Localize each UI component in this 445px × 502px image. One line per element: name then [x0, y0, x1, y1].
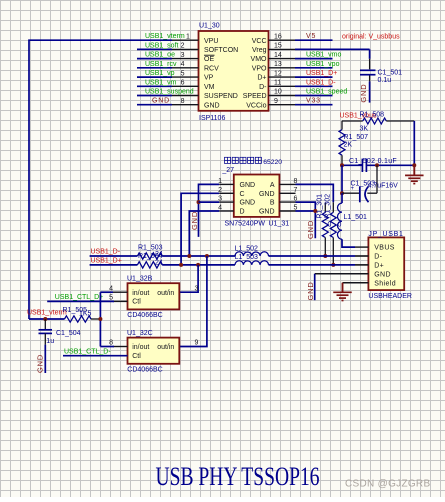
svg-text:L1_503: L1_503 [235, 254, 258, 261]
U1_30 pin 1 stub [172, 39, 199, 41]
U1_30 pin 4 stub [172, 67, 199, 69]
svg-text:GND: GND [240, 200, 256, 207]
svg-text:RCV: RCV [204, 65, 219, 72]
U1_30 pin 6 stub [172, 85, 199, 87]
junction D- to U1_32C pin9 [205, 254, 209, 258]
svg-text:U1_31: U1_31 [269, 221, 290, 228]
svg-text:U1_30: U1_30 [199, 23, 220, 30]
svg-text:R1_508: R1_508 [360, 112, 385, 119]
wire from U1_30 pin15 to C1_501 [369, 49, 371, 58]
wire vterm node [29, 318, 65, 320]
wire USB1_D+ line mid [162, 264, 235, 266]
U1_31 pin 7 stub [279, 192, 295, 194]
U1_30 pin 8 stub [172, 104, 199, 106]
wire C1_502 left lead [342, 164, 362, 166]
svg-text:USB1_D+: USB1_D+ [306, 70, 337, 77]
svg-text:D-: D- [374, 254, 382, 261]
vertical wire pin4-R1_505-pin8 [99, 292, 101, 346]
svg-text:GND: GND [259, 191, 275, 198]
svg-text:3: 3 [195, 285, 199, 292]
svg-text:USB1_vterm: USB1_vterm [145, 33, 185, 40]
wire JP_USB1 Shield to ground [343, 282, 369, 284]
wire U1_31 pin6 (B) to GND [296, 202, 316, 238]
svg-text:USB1_vpo: USB1_vpo [306, 61, 340, 68]
analog switch U1_32B body [128, 283, 180, 309]
svg-text:0.1u: 0.1u [378, 77, 392, 84]
svg-text:GND: GND [240, 182, 256, 189]
svg-text:GND: GND [374, 271, 391, 278]
svg-text:V33: V33 [306, 98, 321, 105]
svg-text:8: 8 [181, 98, 185, 105]
svg-text:C1_504: C1_504 [56, 330, 81, 337]
wire at U1_30 pin 15 [295, 48, 370, 50]
svg-text:10: 10 [274, 89, 282, 96]
wire L1_501 to JP_USB1 VBUS [342, 239, 355, 247]
wire C1_502 right lead [366, 164, 414, 166]
resistor R1_302 [330, 212, 336, 237]
svg-text:CSDN @GJZGRB: CSDN @GJZGRB [345, 479, 430, 490]
U1_30 pin 5 stub [172, 76, 199, 78]
JP_USB1 pin 3 stub [355, 264, 368, 266]
wire vbus rail down [341, 165, 343, 193]
wire at U1_30 pin 14 [295, 58, 333, 60]
svg-text:R1_507: R1_507 [344, 134, 369, 141]
svg-text:D-: D- [259, 84, 267, 91]
svg-text:11: 11 [274, 80, 281, 87]
svg-text:GND: GND [306, 281, 315, 300]
wire USB1_vbus node [342, 120, 363, 122]
svg-text:L1_502: L1_502 [235, 245, 258, 252]
JP_USB1 pin 1 stub [355, 246, 368, 248]
junction U1_31 pin3 GND [197, 200, 201, 204]
svg-text:GND: GND [359, 84, 368, 103]
wire net USB1_vterm from U1_30 pin1 down to R1_505 [29, 40, 172, 319]
capacitor C1_503 (polarized) [342, 192, 360, 194]
junction vterm/C1_504 [43, 317, 47, 321]
U1_31 pin 3 stub [219, 201, 234, 203]
wire to U1_30 pin 8 [137, 104, 172, 106]
svg-text:GND: GND [204, 102, 220, 109]
svg-text:1u: 1u [46, 338, 54, 345]
junction pin5/pin6 GND wire [313, 209, 317, 213]
U1_32B pin 4 stub [113, 291, 128, 293]
wire U1_31 pin2 (C) to D+ line [181, 193, 219, 265]
U1_30 pin 10 stub [269, 95, 296, 97]
U1_31 pin 1 stub [219, 183, 234, 185]
capacitor C1_501 [360, 69, 376, 71]
svg-text:USBHEADER: USBHEADER [368, 293, 412, 300]
svg-text:R1_302: R1_302 [324, 194, 331, 219]
resistor R1_507 [341, 121, 343, 130]
IC U1_30 ISP1106 body [199, 31, 269, 111]
U1_32C pin 8 stub [113, 346, 128, 348]
wire at U1_30 pin 12 [295, 76, 333, 78]
svg-text:24: 24 [155, 260, 163, 267]
U1_30 pin 3 stub [172, 58, 199, 60]
resistor R1_505 [65, 316, 92, 322]
wire U1_32B pin4 to vertical [100, 291, 113, 293]
svg-text:JP_USB1: JP_USB1 [368, 231, 403, 238]
junction R1_301 to D- line [323, 254, 327, 258]
U1_31 pin 6 stub [279, 201, 295, 203]
svg-text:OE: OE [204, 56, 214, 63]
svg-text:0: 0 [328, 222, 332, 229]
connector JP_USB1 body [368, 237, 404, 290]
svg-text:VPO: VPO [252, 65, 267, 72]
resistor R1_301 [324, 203, 326, 213]
wire USB1_D+ line right [269, 264, 356, 266]
U1_31 pin 4 stub [219, 210, 234, 212]
junction at C1_502 right [375, 163, 379, 167]
junction vbus rail / C1_503 / U1_31 pin7 [340, 191, 344, 195]
svg-text:Ctl: Ctl [132, 298, 141, 305]
svg-text:VM: VM [204, 84, 215, 91]
svg-text:USB PHY TSSOP16: USB PHY TSSOP16 [156, 461, 320, 491]
svg-text:L1_501: L1_501 [344, 214, 367, 221]
U1_30 pin 11 stub [269, 85, 296, 87]
svg-text:out/in: out/in [157, 290, 174, 297]
svg-text:VP: VP [204, 75, 214, 82]
U1_30 pin 14 stub [269, 58, 296, 60]
svg-text:original: V_usbbus: original: V_usbbus [342, 34, 400, 41]
wire USB1_D- line right [269, 255, 356, 257]
wire U1_32C pin8 [100, 346, 114, 348]
svg-text:VCC: VCC [252, 38, 267, 45]
wire at U1_30 pin 13 [295, 67, 333, 69]
svg-text:SOFTCON: SOFTCON [204, 47, 238, 54]
svg-text:D+: D+ [257, 75, 266, 82]
svg-text:C1_502 0.1uF: C1_502 0.1uF [349, 158, 397, 165]
svg-text:USB1_rcv: USB1_rcv [145, 61, 177, 68]
svg-text:A: A [270, 182, 275, 189]
svg-text:VCCio: VCCio [246, 102, 266, 109]
wire vbus rail to L1_501 [341, 193, 343, 203]
svg-text:C: C [240, 191, 245, 198]
U1_30 pin 7 stub [172, 95, 199, 97]
wire at U1_30 pin 16 [295, 39, 333, 41]
wire U1_32C pin9 to D- line [179, 256, 207, 347]
svg-text:USB1_vp: USB1_vp [145, 70, 175, 77]
wire R1_508 to ground rail [386, 120, 414, 122]
wire U1_31 pin5 [296, 210, 316, 212]
U1_31 pin 5 stub [279, 210, 295, 212]
wire to U1_30 pin 6 [137, 85, 172, 87]
wire USB1_D- line mid [162, 255, 235, 257]
svg-text:USB1_CTL_D+: USB1_CTL_D+ [55, 294, 103, 301]
U1_31 pin 8 stub [279, 183, 295, 185]
wire to U1_30 pin 5 [137, 76, 172, 78]
svg-text:USB1_soft: USB1_soft [145, 42, 179, 49]
junction D+ to U1_31 pin2 [179, 263, 183, 267]
svg-text:B: B [270, 200, 275, 207]
wire to U1_30 pin 4 [137, 67, 172, 69]
svg-text:Vreg: Vreg [252, 47, 267, 54]
svg-text:4: 4 [181, 61, 185, 68]
svg-text:USB1_D-: USB1_D- [306, 79, 336, 86]
svg-text:13: 13 [274, 61, 282, 68]
svg-text:GND: GND [259, 209, 275, 216]
svg-text:U1_32B: U1_32B [127, 275, 153, 282]
svg-text:SPEED: SPEED [243, 93, 267, 100]
svg-text:14: 14 [274, 52, 282, 59]
svg-text:VBUS: VBUS [374, 245, 395, 252]
wire USB1_D- line left [90, 255, 138, 257]
analog switch U1_32C body [128, 338, 180, 364]
junction R1_302 to D+ line [331, 263, 335, 267]
wire C1_501 to GND label [369, 76, 371, 82]
svg-text:USB1_suspend: USB1_suspend [145, 89, 194, 96]
svg-text:USB1_vterm: USB1_vterm [27, 310, 67, 317]
svg-text:USB1_D-: USB1_D- [91, 249, 121, 256]
wire U1_31 pin3 [199, 201, 220, 203]
resistor R1_503 [137, 253, 162, 259]
svg-text:VPU: VPU [204, 38, 218, 45]
svg-text:SN75240PW: SN75240PW [225, 221, 266, 228]
svg-text:5: 5 [181, 70, 185, 77]
wire at U1_30 pin 11 [295, 85, 333, 87]
svg-text:3: 3 [181, 52, 185, 59]
svg-text:7: 7 [294, 187, 298, 194]
svg-text:USB1_speed: USB1_speed [306, 89, 347, 96]
svg-text:GND: GND [36, 354, 45, 373]
svg-text:9: 9 [274, 98, 278, 105]
svg-text:CD4066BC: CD4066BC [127, 366, 162, 373]
wire U1_31 pin4 (D) to D- line [189, 211, 219, 256]
svg-text:GND: GND [152, 98, 170, 105]
wire control net to U1_32C Ctl [63, 355, 128, 357]
junction at ground symbol [412, 163, 416, 167]
svg-text:2: 2 [181, 43, 185, 50]
svg-text:65220: 65220 [263, 159, 282, 166]
U1_30 pin 12 stub [269, 76, 296, 78]
svg-text:9: 9 [195, 340, 199, 347]
svg-text:GND: GND [306, 220, 315, 239]
inductor L1_501 [337, 203, 342, 239]
wire to U1_30 pin 3 [137, 58, 172, 60]
svg-text:15: 15 [274, 43, 282, 50]
svg-text:in/out: in/out [132, 290, 149, 297]
JP_USB1 pin 4 stub [355, 273, 368, 275]
svg-text:U1_32C: U1_32C [127, 330, 153, 337]
svg-text:USB1_oe: USB1_oe [145, 52, 175, 59]
inductor L1_503 [235, 261, 269, 265]
junction on vbus rail at C1_502 [340, 163, 344, 167]
svg-text:D: D [240, 209, 245, 216]
svg-text:C1_501: C1_501 [378, 70, 403, 77]
svg-text:USB1_vmo: USB1_vmo [306, 52, 342, 59]
ground symbol (bottom) [342, 283, 344, 293]
wire at U1_30 pin 9 [295, 104, 333, 106]
wire C1_502 to C1_503 [376, 165, 378, 193]
svg-text:R1_301: R1_301 [317, 194, 324, 219]
svg-text:out/in: out/in [157, 344, 174, 351]
wire to U1_30 pin 2 [137, 48, 172, 50]
capacitor C1_502 [361, 159, 363, 172]
junction R1_505/U1_32 control [98, 317, 102, 321]
wire to U1_30 pin 7 [137, 95, 172, 97]
U1_30 pin 13 stub [269, 67, 296, 69]
inductor L1_502 [235, 252, 269, 256]
svg-text:GND: GND [190, 211, 199, 230]
svg-text:USB1_D+: USB1_D+ [91, 257, 122, 264]
U1_30 pin 16 stub [269, 39, 296, 41]
wire U1_32B pin3 to D+ line [179, 265, 198, 292]
svg-text:1K5: 1K5 [79, 311, 92, 318]
resistor R1_508 [363, 118, 387, 124]
svg-text:in/out: in/out [132, 344, 149, 351]
U1_31 pin 2 stub [219, 192, 234, 194]
svg-text:ISP1106: ISP1106 [199, 115, 225, 122]
U1_32B pin 5 stub [113, 300, 128, 302]
capacitor C1_504 [44, 319, 46, 329]
JP_USB1 pin 2 stub [355, 255, 368, 257]
wire U1_31 pin1 to GND [199, 184, 220, 237]
note text 65220 [225, 157, 231, 163]
svg-text:4.7uF16V: 4.7uF16V [368, 183, 399, 190]
svg-text:12: 12 [274, 70, 282, 77]
svg-text:3K: 3K [360, 126, 369, 133]
wire C1_504 to GND [44, 345, 46, 373]
IC U1_31 SN75240PW body [234, 175, 280, 217]
junction D+ to U1_32B pin3 [196, 263, 200, 267]
svg-text:USB1_vm: USB1_vm [145, 79, 177, 86]
svg-text:6: 6 [181, 80, 185, 87]
svg-text:D+: D+ [374, 263, 384, 270]
svg-text:1: 1 [186, 33, 190, 40]
svg-text:16: 16 [274, 33, 282, 40]
wire USB1_D+ line left [90, 264, 138, 266]
ground symbol (top right) [413, 165, 415, 175]
svg-text:VMO: VMO [251, 56, 268, 63]
svg-text:2K: 2K [344, 142, 353, 149]
JP_USB1 pin 5 stub [355, 282, 368, 284]
svg-text:Ctl: Ctl [132, 353, 141, 360]
U1_30 pin 2 stub [172, 48, 199, 50]
wire at U1_30 pin 10 [295, 95, 333, 97]
svg-text:USB1_CTL_D-: USB1_CTL_D- [64, 348, 111, 355]
svg-text:_27: _27 [221, 167, 234, 174]
wire JP_USB1 GND pin to GND label [315, 273, 369, 275]
svg-text:V5: V5 [306, 33, 316, 40]
wire U1_31 pin8 (A) to R1_302 [296, 184, 334, 202]
svg-text:Shield: Shield [374, 280, 396, 287]
U1_30 pin 15 stub [269, 48, 296, 50]
svg-text:CD4066BC: CD4066BC [127, 312, 162, 319]
junction D- to U1_31 pin4 [187, 254, 191, 258]
U1_30 pin 9 stub [269, 104, 296, 106]
svg-text:SUSPEND: SUSPEND [204, 93, 238, 100]
resistor R1_504 [137, 262, 162, 268]
wire control net to U1_32B pin5 [47, 300, 114, 302]
